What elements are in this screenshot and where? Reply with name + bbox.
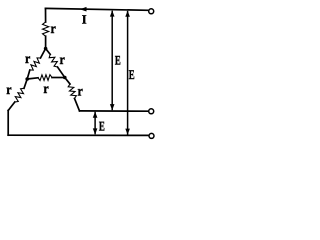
voltage arrow E (middle to bottom rail) [94,113,96,134]
svg-text:r: r [60,53,65,68]
wire resistor to top node [45,36,47,48]
svg-text:E: E [115,53,121,68]
svg-text:r: r [78,85,83,100]
wire top rail [46,8,149,10]
svg-text:r: r [51,22,56,37]
svg-text:E: E [129,67,135,82]
svg-text:r: r [6,83,11,98]
resistor r (upper-left diagonal) [41,49,46,59]
resistor r (bottom horizontal) [27,78,38,79]
svg-text:r: r [25,52,30,67]
resistor r (outer-left diagonal) [24,79,27,88]
resistor r (top vertical) [43,22,49,36]
terminal middle [149,109,154,114]
terminal bottom [149,133,154,138]
voltage arrow E (top to middle rail) [111,12,113,110]
wire top-left corner down [45,8,47,22]
node left junction [25,77,29,81]
svg-text:I: I [82,12,87,26]
wire middle rail [80,110,149,112]
voltage arrow E (top to bottom rail) [127,12,129,135]
svg-text:E: E [99,119,105,134]
resistor r (outer-right diagonal) [65,78,70,85]
resistor r (upper-right diagonal) [46,49,51,55]
wire bottom rail [8,134,148,136]
node right junction [63,76,67,80]
current arrow I on top rail [80,7,87,12]
wire left vertical [7,111,9,136]
terminal top [149,9,154,14]
svg-text:r: r [43,82,48,97]
node top junction [44,47,48,51]
